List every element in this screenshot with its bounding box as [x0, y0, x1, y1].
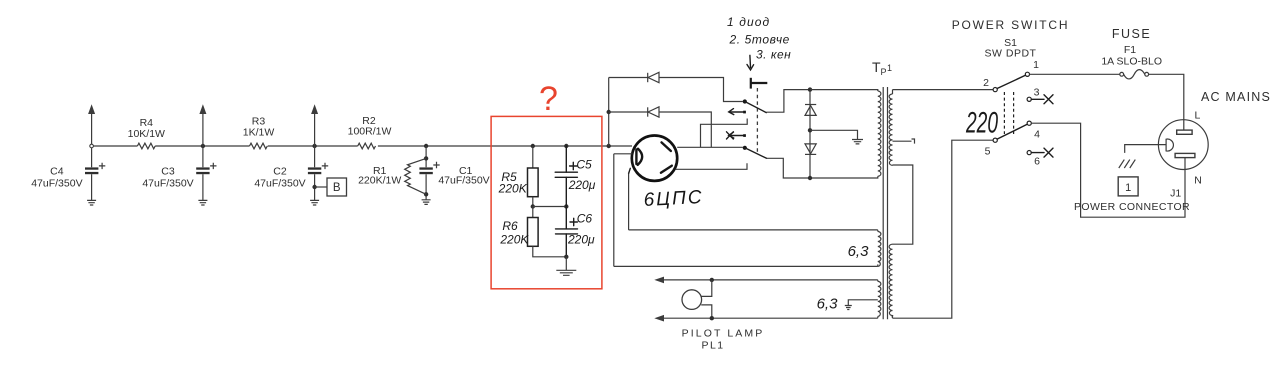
svg-text:6: 6	[1034, 156, 1040, 168]
wire R6 bottom rail	[533, 246, 567, 256]
wire mid rail	[533, 206, 567, 208]
node R5 bus junction	[531, 144, 535, 148]
node mid rail left junction	[531, 204, 535, 208]
svg-text:2: 2	[983, 77, 989, 89]
selector pole A arm	[745, 102, 767, 113]
wire diode D1 line	[609, 78, 743, 102]
resistor R2	[358, 143, 376, 149]
wire pilot lamp stubs	[701, 280, 712, 318]
svg-text:R6: R6	[502, 219, 518, 233]
diode D3	[805, 105, 816, 116]
node bridge top junction	[808, 87, 812, 91]
svg-text:220: 220	[965, 107, 998, 140]
wire D notch to plug	[1125, 145, 1166, 153]
selector contact arrow mark 1	[729, 109, 745, 115]
resistor R1 (vertical zigzag)	[405, 158, 426, 194]
transformer core	[883, 87, 887, 319]
selector contact cross mark	[727, 132, 745, 139]
capacitor C5 (hand drawn)	[555, 146, 577, 207]
svg-text:FUSE: FUSE	[1112, 27, 1151, 41]
capacitor C6 (hand drawn)	[556, 207, 578, 257]
diode D4	[805, 144, 816, 155]
wire pin1 to fuse	[1030, 73, 1120, 75]
node R6/C6 bottom junction	[564, 255, 568, 259]
arrow pilot top	[654, 277, 664, 284]
svg-text:1 диод: 1 диод	[727, 15, 770, 29]
diode D1	[648, 72, 659, 82]
resistor R3	[250, 143, 268, 149]
node pilot top junction	[710, 278, 714, 282]
svg-text:P: P	[881, 67, 887, 77]
wire C1 riser	[425, 146, 427, 200]
svg-text:1A SLO-BLO: 1A SLO-BLO	[1101, 55, 1162, 67]
fuse F1	[1120, 70, 1149, 79]
handwritten arrow to switch	[747, 55, 754, 70]
transformer primary winding	[889, 90, 913, 319]
svg-text:SW DPDT: SW DPDT	[985, 48, 1037, 60]
capacitor C3	[196, 163, 216, 201]
svg-text:L: L	[1195, 110, 1201, 122]
svg-text:C3: C3	[161, 166, 175, 178]
wire pole A to rectifier bridge top	[766, 90, 808, 113]
wire heater down left	[613, 154, 615, 267]
wire primary tap	[893, 139, 915, 144]
pilot lamp PL1	[682, 290, 702, 310]
svg-text:6ЦПС: 6ЦПС	[643, 187, 704, 211]
transformer HV secondary winding	[810, 90, 881, 178]
wire tube anode top to pole B	[677, 146, 743, 148]
power connector box	[1118, 177, 1138, 196]
svg-text:POWER SWITCH: POWER SWITCH	[952, 18, 1070, 32]
wire R5 top	[532, 146, 534, 168]
node diode riser bus junction	[607, 144, 611, 148]
resistor R4	[137, 143, 155, 149]
wire primary bottom to switch pin5	[893, 140, 994, 318]
svg-text:220K: 220K	[499, 233, 529, 247]
AC mains receptacle J1 circle	[1158, 120, 1208, 170]
svg-text:100R/1W: 100R/1W	[348, 126, 392, 138]
resistor R6 (box symbol)	[528, 218, 539, 247]
svg-text:POWER CONNECTOR: POWER CONNECTOR	[1074, 201, 1190, 213]
selector contact B2 bracket	[676, 163, 748, 169]
svg-text:47uF/350V: 47uF/350V	[142, 177, 193, 189]
svg-text:47uF/350V: 47uF/350V	[254, 177, 305, 189]
svg-text:2. 5товче: 2. 5товче	[729, 33, 790, 47]
capacitor C4	[85, 163, 105, 201]
selector pole B pivot	[743, 146, 747, 150]
svg-text:PL1: PL1	[702, 340, 725, 352]
svg-text:5: 5	[985, 145, 991, 157]
svg-text:47uF/350V: 47uF/350V	[31, 177, 82, 189]
wire bridge mid to ground	[810, 130, 858, 139]
wire R5 bottom to mid rail	[532, 197, 534, 207]
tube V1 anode strokes	[662, 142, 671, 151]
svg-text:1: 1	[887, 63, 892, 73]
svg-text:220μ: 220μ	[567, 233, 595, 247]
svg-text:47uF/350V: 47uF/350V	[438, 175, 489, 187]
svg-text:4: 4	[1034, 128, 1040, 140]
wire main B+ bus	[93, 145, 632, 147]
pin 3 stub and cross	[1031, 95, 1053, 104]
plus sign C6	[570, 218, 577, 225]
wire N slot to bottom run	[1031, 123, 1185, 217]
ground heater tap	[845, 306, 852, 310]
svg-text:N: N	[1194, 174, 1202, 186]
tube V1 cathode	[636, 149, 642, 165]
svg-text:PILOT LAMP: PILOT LAMP	[682, 328, 765, 340]
svg-text:C5: C5	[576, 158, 592, 172]
node bridge mid junction	[808, 128, 812, 132]
svg-text:220K: 220K	[498, 182, 528, 196]
node C2/B tap junction	[312, 185, 316, 189]
svg-text:?: ?	[539, 80, 558, 118]
selector switch top contact	[751, 78, 768, 89]
switch S1 pin 5	[993, 138, 997, 142]
diode D2	[648, 107, 659, 117]
switch S1 pin 6	[1027, 151, 1031, 155]
node mid rail right junction	[564, 204, 568, 208]
svg-text:AC MAINS: AC MAINS	[1201, 90, 1271, 104]
node pilot bottom junction	[710, 316, 714, 320]
node C5 bus junction	[564, 144, 568, 148]
ground C4	[87, 200, 96, 205]
wire R6 top	[532, 207, 534, 218]
node R1/C1 top junction	[424, 156, 428, 160]
tube V1 envelope (hand drawn)	[632, 136, 677, 181]
selector switch coupling (dashed)	[756, 88, 758, 152]
selector contact A2 bracket	[701, 119, 748, 148]
wire cathode lead down	[629, 168, 631, 173]
terminal B box	[327, 178, 347, 196]
wire heater pin lead	[614, 153, 633, 155]
plug prongs hatching	[1119, 160, 1136, 168]
node diode2 junction	[607, 110, 611, 114]
receptacle slot L	[1177, 130, 1192, 134]
switch S1 pin 4	[1027, 121, 1031, 125]
node C1 junction	[424, 144, 428, 148]
wire pilot lamp top line	[662, 279, 878, 281]
svg-text:3. кен: 3. кен	[756, 48, 791, 62]
wire heater winding top lead	[629, 229, 878, 231]
wire primary top to switch pin2	[893, 89, 994, 91]
svg-text:C6: C6	[577, 212, 593, 226]
wire fuse to AC mains	[1149, 74, 1184, 130]
svg-text:C4: C4	[50, 166, 64, 178]
switch S1 pin 1	[1025, 72, 1029, 76]
receptacle slot N	[1175, 153, 1195, 157]
wire C4 riser and arrow to B+	[91, 114, 93, 168]
wire to terminal B	[315, 186, 327, 188]
wire pilot lamp bottom line	[662, 317, 878, 319]
transformer heater winding 6.3V #1	[878, 230, 881, 267]
svg-text:3: 3	[1034, 87, 1040, 99]
capacitor C1	[419, 162, 439, 174]
wire diode D2 line	[609, 112, 712, 147]
svg-text:B: B	[333, 182, 341, 194]
svg-text:220μ: 220μ	[568, 178, 596, 192]
wire C3 riser and arrow	[202, 114, 204, 168]
svg-text:1K/1W: 1K/1W	[243, 127, 275, 139]
wire pole B to rectifier bridge bottom	[767, 158, 809, 178]
selector pole B arm	[745, 148, 767, 159]
wire to ground in red box	[565, 257, 567, 270]
switch S1 arm 2-1	[997, 75, 1025, 88]
switch S1 pin 2	[993, 88, 997, 92]
ground bridge	[852, 140, 863, 144]
svg-text:1: 1	[1033, 59, 1039, 71]
receptacle ground D notch	[1166, 139, 1173, 151]
wire heater winding bottom lead	[614, 265, 878, 267]
svg-text:J1: J1	[1170, 188, 1181, 200]
svg-text:6,3: 6,3	[817, 296, 839, 313]
ground red box	[556, 270, 576, 275]
switch S1 pin 3	[1027, 97, 1031, 101]
node bridge bottom junction	[808, 176, 812, 180]
switch S1 coupling dashes	[1003, 92, 1005, 134]
svg-text:220K/1W: 220K/1W	[358, 175, 401, 187]
ground C1	[422, 200, 431, 205]
node C3 junction	[201, 144, 205, 148]
switch S1 arm 5-4	[997, 124, 1027, 139]
svg-text:1: 1	[1125, 182, 1131, 194]
transformer heater winding 6.3V #2	[878, 280, 881, 318]
node R1/C1 bottom junction	[424, 192, 428, 196]
ground C3	[198, 200, 207, 205]
wire heater #2 center tap	[848, 300, 878, 306]
selector pole A pivot	[743, 99, 747, 103]
resistor R5 (box symbol)	[528, 168, 539, 197]
node C2 junction	[312, 144, 316, 148]
svg-text:6,3: 6,3	[848, 243, 870, 260]
wire diode riser	[608, 78, 610, 147]
svg-text:C2: C2	[273, 166, 287, 178]
svg-text:10K/1W: 10K/1W	[128, 128, 165, 140]
plus sign C5	[570, 162, 577, 169]
red highlight box	[491, 116, 602, 288]
node C4 (open circle)	[90, 144, 94, 148]
capacitor C2	[308, 163, 328, 201]
pin 6 stub and cross	[1031, 148, 1053, 157]
ground C2	[310, 200, 319, 205]
wire C2 riser and arrow	[314, 114, 316, 168]
arrow pilot bottom	[654, 315, 664, 322]
wire rectifier bridge vertical	[809, 90, 811, 178]
